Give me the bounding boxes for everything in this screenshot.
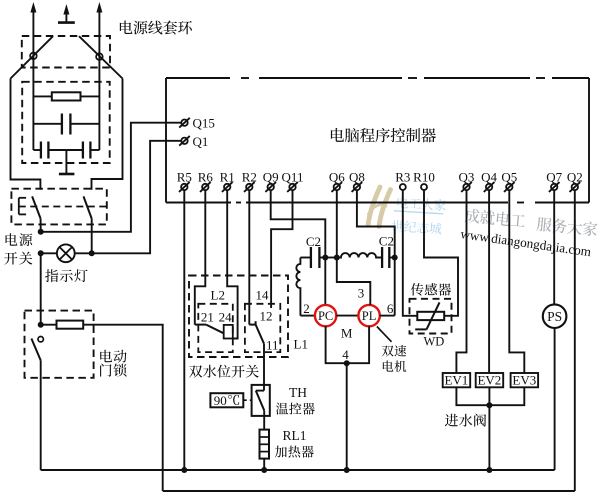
wire motor pin2 — [300, 315, 315, 317]
svg-text:21: 21 — [201, 310, 214, 325]
wire left coil chain — [300, 257, 311, 259]
junction pole1/Q15 — [38, 229, 44, 235]
svg-text:M: M — [341, 326, 353, 341]
svg-text:Q6: Q6 — [329, 170, 345, 185]
wire R1 down — [227, 190, 237, 338]
wire R3 to sensor — [403, 190, 418, 316]
wire EV2 down — [488, 387, 490, 470]
ring core right — [96, 53, 103, 60]
inductor horizontal — [337, 253, 382, 257]
capacitor C2 right — [381, 247, 383, 268]
svg-text:24: 24 — [219, 310, 233, 325]
terminal R3 — [400, 184, 406, 190]
svg-text:WD: WD — [424, 335, 445, 349]
wire PC-PL — [336, 315, 358, 317]
svg-text:EV3: EV3 — [512, 372, 536, 387]
wire lock resistor lead — [41, 324, 57, 326]
wire Q8 to node C — [357, 190, 395, 257]
wire N (line) with arrow — [98, 12, 100, 150]
ring core left — [30, 53, 37, 60]
svg-text:Q1: Q1 — [193, 134, 209, 149]
terminal Q4 — [486, 184, 492, 190]
svg-text:Q3: Q3 — [459, 170, 475, 185]
svg-text:Q9: Q9 — [263, 170, 279, 185]
indicator lamp — [57, 244, 75, 262]
terminal Q11 — [289, 184, 295, 190]
capacitor C2 left — [310, 247, 312, 268]
junction door lock — [38, 322, 44, 328]
svg-text:Q8: Q8 — [349, 170, 365, 185]
svg-text:11: 11 — [266, 338, 279, 353]
label 温控器 — [276, 403, 315, 415]
water-level switch dashed box — [189, 276, 288, 358]
power switch dashed box — [11, 189, 106, 225]
wire Q9 to node A — [271, 190, 326, 257]
pressure switch PS — [543, 304, 567, 328]
svg-text:R1: R1 — [220, 170, 235, 185]
label 指示灯 — [45, 269, 87, 282]
wire bus neutral — [41, 469, 555, 471]
wire door switch down — [40, 360, 42, 470]
terminal R1 — [224, 184, 230, 190]
wire left rail down — [40, 253, 42, 324]
node A junction — [322, 255, 328, 261]
dashed link 90C-TH — [243, 399, 251, 401]
capacitor C-Y right — [66, 149, 83, 151]
junction lamp right — [89, 250, 95, 256]
svg-text:Q15: Q15 — [193, 116, 215, 131]
label 传感器 — [411, 283, 451, 296]
wire EV1 bottom — [456, 387, 489, 405]
wire motor pin6 — [380, 315, 395, 317]
label 电源 — [6, 233, 33, 246]
junction bus-motor4 — [344, 467, 350, 473]
terminal Q9 — [268, 184, 274, 190]
label 电源线套环 — [120, 21, 192, 35]
valve EV3 — [511, 373, 538, 387]
wire Q7 to PS — [553, 190, 555, 304]
svg-text:2: 2 — [303, 301, 310, 316]
wire R2 down — [248, 190, 250, 324]
label 双水位开关 — [189, 365, 259, 378]
valve EV1 — [443, 373, 471, 387]
wire pole1 out — [40, 219, 42, 232]
wire diagonal left — [11, 36, 54, 78]
svg-text:C2: C2 — [379, 234, 394, 249]
wire R5 down — [183, 190, 185, 470]
ground — [65, 150, 67, 173]
svg-text:PC: PC — [318, 309, 333, 323]
svg-text:Q7: Q7 — [546, 170, 562, 185]
svg-text:R2: R2 — [242, 170, 257, 185]
thermostat TH box — [252, 385, 270, 416]
svg-text:R3: R3 — [395, 170, 410, 185]
switch linkage bracket — [18, 198, 20, 215]
contact 12-11 pivot — [249, 324, 255, 326]
svg-text:Q2: Q2 — [567, 170, 583, 185]
pointer line — [377, 327, 392, 342]
svg-text:EV2: EV2 — [477, 372, 501, 387]
wire 11 down to TH — [263, 344, 265, 385]
wire pole2 out — [91, 219, 93, 254]
wire RL1 down — [263, 459, 265, 470]
90C box — [210, 393, 243, 407]
wire EV3 bottom — [489, 387, 524, 405]
switch pole 1 blade — [32, 196, 41, 218]
heater RL1 — [260, 430, 270, 459]
wire lamp right lead — [75, 252, 92, 254]
wire Q6 to node B — [336, 190, 338, 257]
terminal Q3 — [463, 184, 469, 190]
svg-text:RL1: RL1 — [283, 428, 307, 443]
switch linkage dashed line — [19, 206, 106, 208]
terminal R5 — [181, 184, 187, 190]
wire motor pin4 down — [346, 363, 348, 470]
label 电动 — [100, 350, 126, 363]
wire motor bottom — [326, 326, 370, 363]
label 双速 — [382, 345, 407, 357]
wire Q4 to EV2 — [488, 190, 490, 373]
inductor vertical — [296, 258, 300, 316]
wire R10 to sensor — [424, 190, 458, 316]
label 电机 — [383, 360, 406, 372]
svg-text:R6: R6 — [198, 170, 214, 185]
door lock dashed box — [25, 311, 94, 378]
valve EV2 — [476, 373, 504, 387]
motor PC — [315, 305, 336, 326]
wire to Q15 — [41, 123, 182, 232]
L2 contact dashed box — [198, 304, 233, 352]
junction bus-RL1 — [261, 467, 267, 473]
wire lock resistor right — [83, 325, 163, 491]
wire resistor leads — [33, 95, 51, 97]
wire R6 down — [195, 190, 206, 324]
wire PS down — [554, 328, 556, 470]
svg-text:3: 3 — [358, 286, 365, 301]
wire lamp left lead — [41, 252, 57, 254]
wire bus live — [163, 490, 575, 492]
node C junction — [392, 255, 398, 261]
svg-text:R5: R5 — [177, 170, 192, 185]
svg-text:Q5: Q5 — [501, 170, 517, 185]
node B junction — [334, 255, 340, 261]
earth arrow symbol — [65, 13, 67, 22]
svg-text:C2: C2 — [306, 234, 321, 249]
label 门锁 — [100, 364, 127, 377]
sensor dashed box — [410, 299, 452, 334]
svg-text:PS: PS — [547, 309, 562, 324]
filter dashed box — [22, 82, 110, 163]
svg-text:EV1: EV1 — [444, 372, 468, 387]
terminal Q5 — [506, 184, 512, 190]
svg-text:TH: TH — [289, 385, 307, 400]
controller box (dash-dot border) — [166, 77, 230, 79]
label 进水阀 — [445, 414, 486, 427]
wire A-B — [325, 257, 337, 259]
svg-text:Q11: Q11 — [282, 170, 304, 185]
terminal Q1 — [181, 138, 187, 144]
svg-text:90: 90 — [214, 393, 227, 408]
wire Q5 to EV3 — [509, 190, 524, 373]
door switch blade — [31, 339, 40, 361]
wire filter left side — [11, 79, 41, 190]
resistor (filter) — [52, 92, 81, 100]
wire filter right side — [92, 79, 123, 190]
wire Q11 to contact 12 — [271, 190, 292, 308]
terminal R10 — [421, 184, 427, 190]
svg-text:L2: L2 — [211, 288, 225, 303]
svg-text:6: 6 — [387, 301, 394, 316]
sleeve-ring dashed box — [22, 36, 110, 68]
thermistor WD — [417, 312, 444, 320]
contact 21 lead — [195, 324, 206, 326]
terminal Q7 — [551, 184, 557, 190]
svg-text:12: 12 — [260, 309, 273, 324]
label 加热器 — [275, 446, 314, 458]
svg-text:PL: PL — [362, 309, 377, 323]
junction bus-R5 — [181, 467, 187, 473]
contact 24 square — [224, 325, 233, 339]
wire Q3 to EV1 — [456, 190, 466, 373]
svg-text:4: 4 — [342, 347, 349, 362]
wire PC top — [324, 258, 326, 305]
junction bus-EV2 — [486, 467, 492, 473]
capacitor C-Y left — [33, 149, 41, 151]
junction lamp left — [38, 250, 44, 256]
label 电脑程序控制器 — [331, 128, 436, 142]
capacitor C-X (filter) — [33, 123, 62, 125]
svg-text:R10: R10 — [413, 170, 435, 185]
svg-text:L1: L1 — [294, 337, 308, 352]
contact 21-24 blade — [206, 325, 224, 334]
terminal Q15 — [181, 120, 187, 126]
svg-text:14: 14 — [256, 288, 270, 303]
terminal Q2 — [572, 184, 578, 190]
contact 12-11 blade — [256, 325, 264, 344]
switch pole 2 blade — [84, 196, 92, 218]
svg-text:Q4: Q4 — [481, 170, 497, 185]
motor PL — [358, 305, 379, 326]
terminal R2 — [246, 184, 252, 190]
wire Q2 down right side — [574, 190, 576, 491]
terminal Q8 — [354, 184, 360, 190]
thermostat contact — [263, 385, 265, 391]
contact 12 dashed box — [245, 304, 280, 352]
wire motor pin3 — [337, 258, 371, 305]
wire L (line) with arrow — [32, 12, 34, 150]
junction motor pin4 — [344, 360, 350, 366]
door switch contact — [38, 337, 43, 342]
terminal Q6 — [334, 184, 340, 190]
junction EV bottoms — [486, 402, 492, 408]
terminal R6 — [202, 184, 208, 190]
wire diagonal right — [79, 36, 123, 78]
resistor (door lock) — [57, 321, 84, 329]
label 开关 — [4, 252, 32, 265]
wire to Q1 — [92, 141, 182, 254]
